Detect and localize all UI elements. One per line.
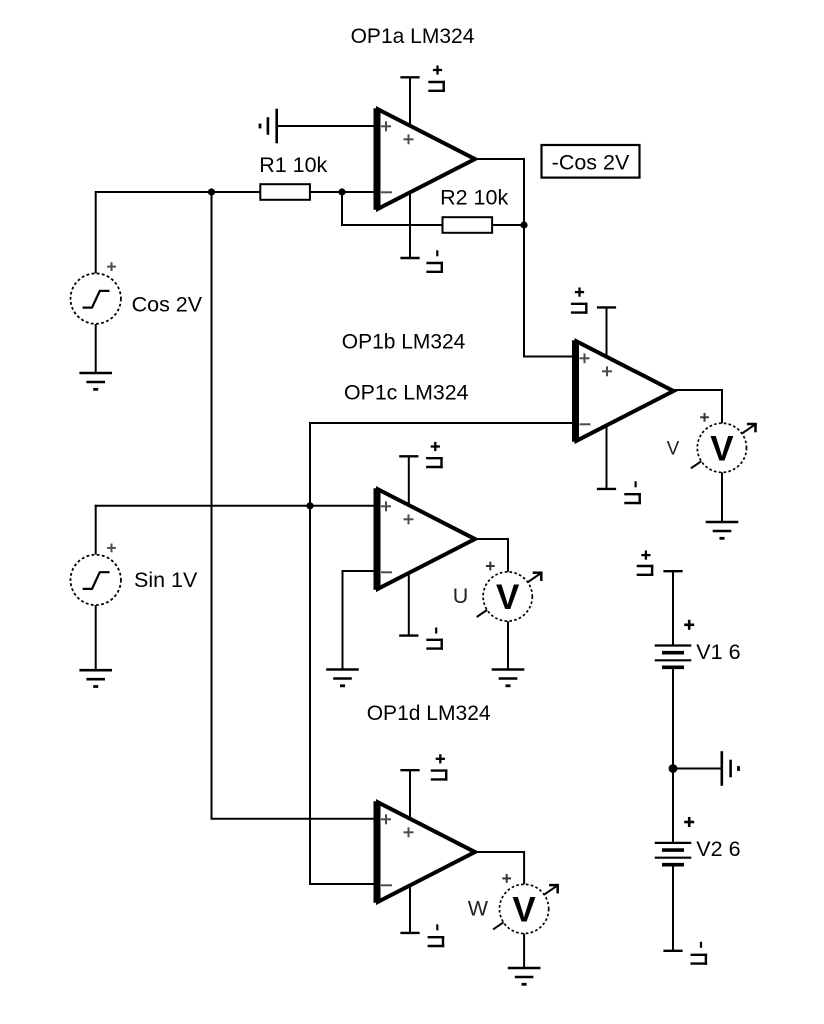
svg-text:V1 6: V1 6 [696, 640, 740, 664]
svg-text:-Cos 2V: -Cos 2V [552, 151, 630, 175]
svg-text:U: U [453, 584, 469, 608]
svg-text:V2 6: V2 6 [696, 837, 740, 861]
svg-text:V: V [667, 439, 680, 460]
svg-text:V: V [710, 429, 734, 468]
svg-text:R1 10k: R1 10k [259, 153, 327, 177]
svg-text:W: W [468, 896, 489, 920]
svg-text:Cos 2V: Cos 2V [132, 293, 203, 317]
svg-text:R2 10k: R2 10k [440, 186, 508, 210]
svg-text:V: V [496, 578, 520, 617]
svg-text:OP1b LM324: OP1b LM324 [342, 329, 466, 353]
svg-text:OP1d LM324: OP1d LM324 [367, 701, 491, 725]
svg-text:Sin 1V: Sin 1V [134, 568, 198, 592]
svg-text:V: V [512, 890, 536, 929]
svg-text:OP1a LM324: OP1a LM324 [351, 24, 475, 48]
svg-text:OP1c LM324: OP1c LM324 [344, 381, 469, 405]
